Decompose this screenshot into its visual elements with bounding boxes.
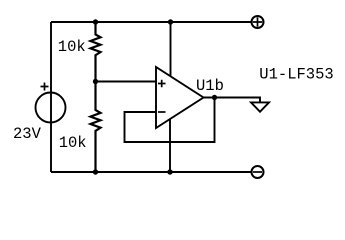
wire feedback output to - input <box>125 98 215 143</box>
node junction top rail / V+ wire <box>168 19 173 24</box>
wire divider node to op-amp + input <box>96 81 157 83</box>
resistor R2 10k (bottom) <box>91 82 101 173</box>
svg-text:10k: 10k <box>58 38 86 56</box>
wire top rail <box>51 21 251 23</box>
wire V+ supply to op-amp top <box>170 22 172 76</box>
svg-text:U1b: U1b <box>196 77 224 95</box>
wire op-amp output to ground <box>204 98 261 103</box>
op-amp - input marker <box>158 111 166 113</box>
voltage source V1 (23V) <box>36 93 66 123</box>
op-amp + input marker <box>158 80 166 88</box>
terminal + output (top right) <box>252 16 264 28</box>
wire left rail <box>50 22 52 172</box>
node junction top rail / R1 <box>93 19 98 24</box>
polarity + of source <box>41 83 49 91</box>
node junction bottom rail / R2 <box>93 169 98 174</box>
node junction divider midpoint <box>93 79 98 84</box>
svg-text:U1-LF353: U1-LF353 <box>259 66 333 84</box>
node junction bottom rail / V- wire <box>167 169 172 174</box>
ground symbol <box>251 102 269 111</box>
resistor R1 10k (top) <box>91 22 101 82</box>
op-amp U1b triangle <box>156 67 204 128</box>
svg-text:23V: 23V <box>13 125 42 143</box>
node junction output / feedback <box>212 95 217 100</box>
wire bottom rail <box>51 171 252 173</box>
wire V- supply from op-amp bottom to bottom rail <box>169 119 171 172</box>
terminal - output (bottom right) <box>252 166 264 178</box>
svg-text:10k: 10k <box>59 134 87 152</box>
